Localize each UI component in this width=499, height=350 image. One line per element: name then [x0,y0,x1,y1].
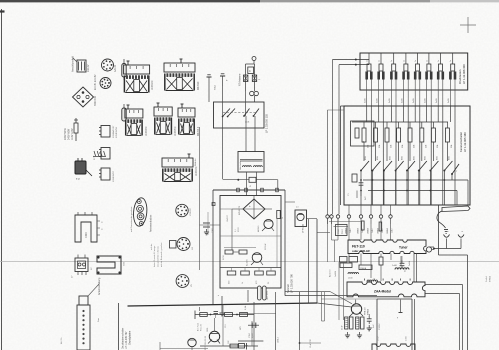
page top border [0,0,260,2]
board edge left [118,303,120,350]
rail drops [456,191,458,206]
button stage 7 [440,53,442,64]
svg-text:1N4007: 1N4007 [227,214,229,222]
svg-text:1F4303.F: 1F4303.F [196,166,198,176]
svg-text:Antennenbuchse: Antennenbuchse [150,214,153,232]
button stage 2 [380,53,382,64]
junction dots [210,314,212,316]
button stage 1 [368,53,370,64]
svg-text:1V58/1V59: 1V58/1V59 [116,126,118,138]
vertical pair to ZAA [413,254,415,282]
page left border [1,9,3,350]
svg-text:1000: 1000 [207,328,209,332]
filter C7 [248,67,254,74]
bridge rectifier GR2 [243,199,265,219]
channel wire 2 [378,106,380,122]
svg-text:2200uF: 2200uF [265,242,267,250]
collector rail 2 [368,190,457,192]
risers pair 2 [338,262,340,320]
resistor row bottom [227,271,236,275]
svg-text:1kBd: 1kBd [350,229,352,233]
tuning resistor R15 [421,122,423,128]
resistor R83 [225,313,233,317]
ZAA wires right [425,284,463,286]
channel wire 4 [403,106,405,122]
svg-text:2x2B: 2x2B [365,98,367,103]
bottom module box [372,344,415,350]
svg-text:AD149: AD149 [257,225,260,232]
tube socket V4 [177,238,190,251]
svg-text:am gedrehten Chassis: am gedrehten Chassis [157,246,160,267]
capacitor C81 [214,311,219,313]
power supply box Netzteil LP 1.33.020 780 [220,196,281,289]
wire into Drucktasten upper [333,59,370,61]
feed wires to IF stage [285,295,377,297]
transformer Tr1 [127,61,129,65]
sub box with resistor [351,121,375,146]
svg-text:250V: 250V [238,227,240,232]
svg-text:1w98d: 1w98d [335,271,337,277]
svg-text:AT Antenne: AT Antenne [239,73,242,86]
svg-text:ECC81 ECC82: ECC81 ECC82 [95,74,97,90]
bus rail [220,267,281,269]
svg-text:LP 1.33.005 155: LP 1.33.005 155 [265,113,269,133]
ground C307 [200,224,221,226]
svg-text:C1302: C1302 [379,323,381,330]
svg-text:2x2B: 2x2B [401,98,403,103]
ZAA top pins [364,279,366,281]
resistor R9 [277,211,281,219]
switch S1b [243,115,245,117]
wires Tr8 to Netzteil [246,172,248,196]
filter slug A [362,221,365,230]
svg-text:AB 30k: AB 30k [60,338,63,344]
svg-text:2x2B: 2x2B [448,98,450,103]
svg-text:Ann 7x12: Ann 7x12 [197,323,200,331]
transistor T2 [264,219,273,228]
transformer Tr8 mains [238,152,264,173]
channel switch Kanalumschalter LP 1.33.005 480 [344,106,470,205]
tube heater F300 [75,215,97,242]
coupling dash line [223,112,257,114]
svg-text:Drucktasten: Drucktasten [458,69,462,84]
svg-text:1kBd: 1kBd [392,229,394,233]
capacitor C95 [401,256,403,262]
tuning resistor R10 [363,122,365,128]
svg-text:Bildrohr: Bildrohr [194,158,197,166]
diode D1 network [340,257,348,263]
channel wire 1 [366,106,368,122]
svg-text:1F4308.F: 1F4308.F [146,126,148,136]
transformer Tr7 wide [188,154,190,158]
svg-text:F7.7: F7.7 [94,155,96,160]
svg-text:Tuner: Tuner [399,246,408,250]
svg-text:C13: C13 [225,325,227,328]
antenna cable plug [442,206,470,212]
bottom bus [200,345,258,347]
switch S1a [222,116,224,118]
coax output curl [426,247,431,252]
svg-text:AC128: AC128 [246,259,249,266]
tuner pin connectors [326,215,329,218]
power supply outer board outline [213,189,285,191]
tuner module box FET-110 / Tuner [348,240,426,254]
tuning resistor R16 [432,122,434,128]
svg-text:MK302F: MK302F [198,81,200,90]
socket cup B [458,235,464,238]
antenna terminal strip [79,296,88,305]
svg-text:B30C400: B30C400 [94,95,97,106]
connector X4 [101,168,110,180]
capacitor C2 electrolytic [122,64,126,78]
ground tap on board edge [221,296,223,310]
capacitor C6a [244,75,248,82]
transistor T20 [351,304,361,314]
wires pins down [327,218,329,262]
wire into Drucktasten lower [339,64,369,66]
cable connector tip [444,229,448,231]
svg-text:1k: 1k [242,282,244,284]
registration cross [460,24,476,26]
wire from kanal down [438,205,440,255]
coupling coil L2 [250,91,254,95]
wire into box B [245,91,247,116]
wire riser C [327,110,329,214]
connector tail [239,344,245,349]
bottom left wire [238,340,263,342]
svg-text:0,047: 0,047 [252,332,254,338]
capacitor C5a [208,77,210,102]
tuning resistor R13 [398,122,400,128]
svg-text:3wSd: 3wSd [486,276,488,282]
svg-text:mit der Bestueck. gesehen: mit der Bestueck. gesehen [160,242,163,267]
wire mesh under fet [348,254,350,257]
wire up stub [222,305,224,315]
svg-text:CB0.4: CB0.4 [278,336,280,343]
wire tuner to right edge down [467,255,469,350]
svg-text:beim Chassis 12 magn.: beim Chassis 12 magn. [154,245,156,267]
capacitor C5b [222,76,224,86]
svg-text:Abstimm: Abstimm [329,269,332,277]
svg-text:2x2B: 2x2B [389,98,391,103]
svg-text:1kBd: 1kBd [372,229,374,233]
svg-text:AA119: AA119 [114,64,117,72]
connector X5 [75,258,88,272]
svg-text:C307: C307 [212,227,214,233]
coil L100 [348,273,359,275]
tuning resistor R11 [375,122,377,128]
channel wire 5 [414,106,416,122]
svg-text:19BB4: 19BB4 [367,228,369,234]
transistor T3 [252,253,262,263]
svg-text:0,3A: 0,3A [244,305,247,310]
coil L90 [395,268,409,270]
svg-text:auf die: auf die [151,243,153,250]
pins on top edge [237,188,240,192]
svg-text:B250C75: B250C75 [239,205,241,215]
riser from fuse [253,302,255,350]
wires around bridge [253,196,255,200]
svg-text:H70: H70 [240,327,242,330]
svg-text:2am: 2am [98,318,100,322]
comb marks [94,151,96,156]
svg-text:LP 1.33.005 480: LP 1.33.005 480 [463,132,467,152]
wire riser to pin [329,221,362,223]
connector X3 [101,148,110,160]
resistor R40 [345,317,348,329]
svg-text:ONC 0551: ONC 0551 [267,290,269,300]
svg-text:MRB4: MRB4 [490,275,492,282]
svg-text:PCC 20: PCC 20 [201,324,203,331]
fuse on wire route [249,177,256,182]
switch arm S2 [451,173,453,175]
transistor T1 [75,161,86,174]
wires pins to tuner [348,224,350,240]
svg-text:40uF: 40uF [342,325,344,330]
resistor R41 [350,317,353,329]
svg-text:Netztrafo: Netztrafo [239,161,242,170]
fuse at bottom edge [258,286,262,300]
LF module box [295,210,307,227]
circuit bus under board edge [195,314,254,316]
bracket U-shape [97,256,121,274]
socket cup A [444,235,450,238]
svg-text:+: + [249,204,251,208]
wire to right edge [439,254,468,256]
risers pair [321,292,323,321]
resistor R42 [356,317,359,329]
resistor R80 [200,313,208,317]
stubs from kanal bottom to pins [348,205,350,215]
channel wire 3 [390,106,392,122]
antenna input terminal [252,57,256,61]
cap C80 [199,307,201,311]
coil L101 [367,280,378,282]
board edge Grundplatine [128,303,318,306]
svg-text:MRB4: MRB4 [368,308,370,315]
wire into box A [222,86,224,117]
wire to LF left [317,232,330,234]
ZAA pin to T20 [355,300,357,304]
IF board box lower [377,298,412,300]
svg-text:2x2B: 2x2B [377,98,379,103]
transformer Tr5 [157,103,159,107]
tube socket V5 [176,275,189,288]
channel wire 6 [426,106,428,122]
ground G41 [359,332,361,335]
wire L-route [223,179,249,181]
svg-text:1V96/1V97: 1V96/1V97 [113,170,115,182]
button stage 4 [405,53,407,64]
left contact cluster [352,174,357,182]
resistor R30 [379,257,383,265]
channel wire 7 [437,106,439,122]
svg-text:V3 ECC: V3 ECC [190,208,192,216]
transformer Tr6 [181,104,183,108]
mid horizontal wires [220,235,281,237]
svg-text:ZAA-Modul: ZAA-Modul [374,290,391,294]
leader line [88,284,99,296]
tuning resistor R14 [409,122,411,128]
svg-text:1N60A: 1N60A [360,267,367,270]
filter slug B [379,222,382,231]
boxed label left of tuner [336,225,348,236]
LF module bracket [307,218,318,220]
antenna socket plate [132,197,148,226]
svg-text:2x6,3V: 2x6,3V [87,64,90,72]
svg-text:N Ant: N Ant [214,84,217,90]
svg-text:C: C [249,70,251,73]
svg-text:C82: C82 [228,341,230,344]
svg-text:LF Modul: LF Modul [303,223,305,233]
button stage 3 [393,53,395,64]
tuning resistor R12 [386,122,388,128]
bridge rectifier GR1 [73,87,94,107]
connector X2 [101,126,110,138]
tube socket V3 [176,204,188,216]
cable curve [437,211,446,228]
capacitor C42 [368,314,370,317]
tube socket V2 [100,78,111,89]
button stage 6 [428,53,430,64]
svg-text:Antennenleitung: Antennenleitung [98,277,101,295]
resistor R43 [361,317,364,329]
push-button unit Drucktasten LP 1.33.006 400 [360,53,468,90]
svg-text:O: O [101,222,103,224]
svg-text:F300: F300 [85,232,88,238]
wire riser A [332,60,334,215]
svg-text:1F4305.F: 1F4305.F [175,126,177,136]
svg-text:PCC 30 H30 80: PCC 30 H30 80 [205,335,207,350]
socket wire [434,248,461,250]
svg-text:oder 450LHF: oder 450LHF [352,249,370,253]
channel wire 8 [449,106,451,122]
left edge tick [0,10,5,12]
riser CB04 [275,292,277,350]
svg-text:LP 1.33.020 780: LP 1.33.020 780 [290,273,294,293]
ground G40 [347,332,349,335]
connector X1 [77,60,86,72]
capacitor C3 electrolytic [122,108,126,121]
svg-text:1a90: 1a90 [392,265,398,267]
switch S1c [253,115,255,117]
svg-text:2x2B: 2x2B [424,98,426,103]
svg-text:2x2B: 2x2B [436,98,438,103]
button stage 8 [452,53,454,64]
switch box LP 1.33.005 155 [214,102,265,128]
splitter wires [246,63,255,65]
pin on box left edge [212,203,215,206]
wire bottom run [160,348,208,350]
svg-text:Anschlussfeld: Anschlussfeld [71,55,75,72]
svg-text:auf Geraeteseite gesehen: auf Geraeteseite gesehen [130,206,133,232]
svg-text:3wSd: 3wSd [409,261,411,266]
transformer Tr2 [180,59,182,63]
svg-text:FRB 20: FRB 20 [365,307,367,315]
svg-text:110V 127V: 110V 127V [71,128,74,140]
tuning resistor R17 [446,122,448,128]
paper fold line [0,261,499,263]
wire stub long [199,127,201,270]
svg-text:19BB4: 19BB4 [387,228,389,234]
riser NTC [299,292,301,350]
switch contact row [360,170,362,172]
resistor R84 [240,313,248,317]
svg-text:1V96A/1V57: 1V96A/1V57 [112,125,115,138]
svg-text:2x2B: 2x2B [413,98,415,103]
svg-text:FET-110: FET-110 [352,245,365,249]
wires between Drucktasten and Kanalumschalter [366,90,368,106]
ZAA-Modul box [347,282,425,297]
plug P1 [247,290,249,302]
collector rail 1 [363,179,468,181]
resistor box 1N60A [359,265,372,270]
svg-text:10uF C30: 10uF C30 [310,338,312,348]
tube socket V1 [102,59,114,71]
svg-text:T.V: T.V [76,177,80,181]
svg-text:LP 1.33.006 400: LP 1.33.006 400 [462,64,466,84]
zener diode row mid [225,250,233,254]
transistor T31 [188,338,196,346]
svg-text:O: O [101,229,103,231]
wire from switch box down [222,117,224,179]
transistor T30 [209,331,219,341]
svg-text:1k: 1k [282,217,284,219]
svg-text:1kBd: 1kBd [382,229,384,233]
wire riser B [338,65,340,214]
svg-text:Netzteil: Netzteil [286,284,290,293]
svg-text:+: + [226,78,228,82]
bottom wires to edge [222,315,224,347]
capacitor C304 [248,324,259,326]
svg-text:1F4302.F: 1F4302.F [152,80,154,90]
ZAA pin down 1 [400,300,402,312]
svg-text:Grundplatine: Grundplatine [129,330,132,345]
capacitor C6b [252,75,256,82]
svg-text:Kanalumschalter: Kanalumschalter [459,132,463,152]
internal bus [352,121,448,123]
transformer Tr4 [127,105,129,109]
button stage 5 [417,53,419,64]
svg-text:19BB4: 19BB4 [357,228,359,234]
